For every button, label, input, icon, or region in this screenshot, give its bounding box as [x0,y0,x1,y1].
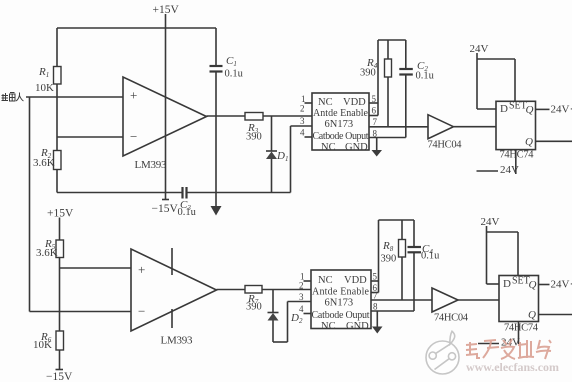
wire bottom -15V rail (right of C3) [188,192,291,194]
capacitor C4 0.1u [408,220,441,311]
svg-text:NC: NC [321,321,336,332]
svg-text:390: 390 [360,68,376,79]
svg-text:5: 5 [373,272,378,282]
pin 4 stub [305,136,313,138]
ground arrow (pin 8, channel 2) [372,311,383,334]
svg-text:D: D [503,278,511,290]
net 24V (channel 1 bottom) [477,164,520,176]
wire input drop to channel 2 [29,97,31,312]
svg-text:Antde Enable: Antde Enable [313,108,369,119]
svg-text:Q: Q [528,309,536,321]
svg-text:Q: Q [529,279,537,291]
diode D2 [268,290,303,343]
svg-text:390: 390 [246,302,262,313]
wire Q output (channel 2) [539,284,550,286]
resistor R4 390 [360,40,392,127]
svg-text:LM393: LM393 [161,335,194,347]
wire divider column (channel 2) [59,258,61,332]
svg-text:0.1u: 0.1u [421,251,440,262]
svg-text:VDD: VDD [343,97,366,108]
svg-text:Q: Q [526,104,534,116]
svg-text:SET: SET [509,101,527,112]
wire Q output [536,108,550,110]
svg-text:0.1u: 0.1u [416,71,435,82]
wire +15V stub down [165,14,167,28]
wire R8/C4 top rail [379,219,415,221]
svg-text:NC: NC [318,275,333,286]
net 24V (channel 1 top) [470,43,489,59]
capacitor C1 0.1u [210,28,244,193]
svg-text:6N173: 6N173 [325,119,354,130]
svg-text:+: + [138,262,145,277]
wire pin8 to C4 [371,310,414,312]
wire op-amp power column [165,28,167,193]
svg-text:LM393: LM393 [135,159,168,171]
svg-text:24V: 24V [500,164,519,176]
wire divider to op-amp + input [60,267,132,269]
diode D1 [266,116,288,193]
svg-text:1: 1 [301,94,306,104]
watermark elecfans logo disc [426,331,459,374]
wire left supply column [56,28,58,193]
wire op-amp power stub top [171,248,173,275]
svg-text:6N173: 6N173 [325,298,354,309]
flip-flop U8 74HC74 [499,276,539,334]
resistor R3 390 [245,113,263,143]
pin 5 stub [369,102,378,104]
pin 1 stub (U6) [304,280,312,282]
svg-text:24V: 24V [481,216,500,228]
svg-text:0.1u: 0.1u [178,207,197,218]
svg-text:4: 4 [300,128,305,138]
svg-text:Antde Enable: Antde Enable [312,287,370,298]
optocoupler U6 6N173 [311,270,371,332]
svg-text:3: 3 [300,116,305,126]
svg-text:Catbode Ouput: Catbode Ouput [313,131,369,142]
wire 24V loop (channel 2) [487,232,519,284]
wire op-amp power stub bottom [171,309,173,328]
svg-text:4: 4 [299,304,304,314]
wire op-amp output (channel 2) [217,289,246,291]
svg-text:−: − [130,129,137,144]
wire R3 to optocoupler pin2 [263,115,312,117]
resistor R7 390 [245,286,262,313]
wire R7 to optocoupler pin2 [262,289,311,291]
net +15V (channel 1) [153,4,180,16]
svg-text:+15V: +15V [47,208,74,220]
wire VDD/enable riser [377,40,379,116]
svg-text:6: 6 [372,106,377,116]
wire input to op-amp - input [30,311,132,313]
pin 6 stub (U6) [371,292,379,294]
op-amp U1 LM393 [123,77,207,171]
wire inverter to flip-flop clock (channel 2) [458,299,499,301]
resistor R1 10K [35,66,61,94]
svg-text:3.6K: 3.6K [36,247,58,259]
svg-text:390: 390 [246,132,262,143]
wire R4/C2 top rail [378,39,406,41]
inverter U3 74HC04 [428,115,463,151]
svg-text:Q: Q [525,136,533,148]
net -15V (channel 1) [152,193,179,216]
wire inverter to flip-flop clock [454,126,497,128]
wire pin7 to inverter [369,126,428,128]
svg-text:2: 2 [300,104,305,114]
wire CLR stub (channel 2) [518,322,520,345]
svg-text:3.6K: 3.6K [33,157,55,169]
svg-text:24V·: 24V· [551,279,572,291]
svg-text:+: + [130,88,137,103]
svg-text:74HC04: 74HC04 [428,140,463,151]
wire Qbar output (channel 2) [539,314,572,316]
optocoupler U2 6N173 [312,93,369,153]
resistor R2 3.6K [33,147,61,170]
flip-flop U4 74HC74 [496,101,536,161]
capacitor C2 0.1u [399,40,434,138]
net +15V (channel 2) [47,208,74,226]
wire pin8 to C2 [369,137,406,139]
resistor R6 10K [33,331,64,370]
capacitor C3 0.1u (series) [178,187,197,218]
node 输入 input label (drawn glyphs) [2,93,24,102]
op-amp U5 LM393 [131,249,217,347]
svg-text:74HC74: 74HC74 [500,150,535,161]
pin 6 stub [369,115,378,117]
wire optocoupler pin3 riser [291,126,313,193]
net 24V (channel 2 top) [481,216,500,232]
svg-text:10K: 10K [33,339,52,351]
wire divider to op-amp - input [57,136,123,138]
pin 1 stub [305,102,313,104]
pin 5 stub (U6) [371,280,379,282]
resistor R8 390 [381,220,406,300]
svg-text:10K: 10K [35,82,54,94]
watermark text 电子发烧友 (stylized red strokes) [466,339,551,359]
resistor R5 3.6K [36,225,64,259]
svg-text:−15V: −15V [152,203,179,215]
net 24V (channel 2 bottom) [478,337,520,349]
ground arrow (channel 1 decoupling) [211,193,222,216]
svg-text:Catbode Ouput: Catbode Ouput [312,310,370,321]
inverter U7 74HC04 [432,288,469,324]
svg-text:−15V: −15V [46,371,73,382]
svg-text:74HC74: 74HC74 [504,323,539,334]
wire 24V loop [477,59,515,109]
svg-text:www.elecfans.com: www.elecfans.com [466,360,559,374]
svg-text:7: 7 [373,291,378,301]
svg-text:7: 7 [373,117,378,127]
svg-text:NC: NC [321,142,336,153]
svg-text:5: 5 [372,94,377,104]
ground arrow (pin 8) [372,138,383,157]
wire Qbar output [536,140,572,142]
svg-text:74HC04: 74HC04 [434,313,469,324]
pin 4 stub (U6) [304,313,312,315]
wire bottom -15V rail (left of C3) [57,192,182,194]
svg-text:390: 390 [381,254,397,265]
wire CLR stub [515,150,517,174]
svg-text:24V: 24V [470,43,489,55]
wire op-amp output [207,115,246,117]
wire VDD/enable riser (channel 2) [378,220,380,293]
svg-text:0.1u: 0.1u [225,69,244,80]
wire top +15V rail [57,27,216,29]
wire pin7 to inverter (channel 2) [371,299,432,301]
svg-text:SET: SET [512,276,530,287]
svg-text:−: − [138,304,145,319]
svg-text:2: 2 [299,281,304,291]
wire D2 return to pin3 [273,302,311,343]
svg-text:24V·: 24V· [551,104,572,116]
svg-text:NC: NC [318,97,333,108]
svg-text:D: D [500,103,508,115]
wire input to op-amp + input [26,96,123,98]
svg-text:VDD: VDD [344,275,367,286]
svg-text:8: 8 [373,302,378,312]
svg-text:3: 3 [299,292,304,302]
svg-text:GND: GND [346,321,369,332]
svg-text:GND: GND [345,142,368,153]
